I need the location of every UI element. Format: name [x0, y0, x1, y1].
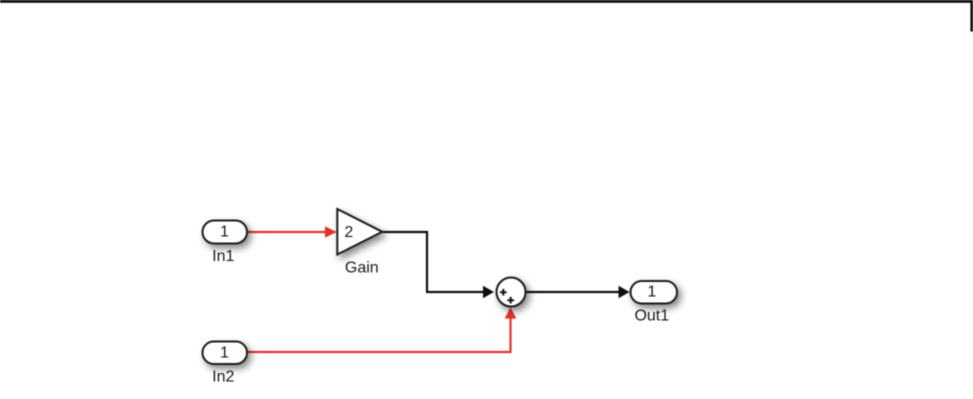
plus sign bottom input	[507, 297, 514, 304]
svg-text:In1: In1	[212, 248, 234, 265]
svg-text:1: 1	[220, 345, 229, 362]
wire red In2 to Sum bottom	[247, 317, 511, 352]
outport block Out1	[631, 281, 678, 304]
arrowhead black at Sum left input	[483, 286, 494, 298]
arrowhead red at Gain input	[325, 226, 337, 238]
arrowhead black at Out1 input	[619, 286, 630, 298]
inport block In1	[203, 221, 248, 244]
svg-text:1: 1	[647, 283, 656, 300]
plus sign left input	[500, 289, 507, 296]
svg-text:Out1: Out1	[634, 308, 669, 325]
gain block U: triangle	[337, 209, 382, 255]
wire red In1 to Gain	[247, 231, 327, 233]
inport block In2	[203, 342, 248, 365]
sum block	[497, 278, 526, 307]
svg-text:2: 2	[344, 224, 353, 241]
window right border	[970, 0, 973, 32]
wire black Gain to Sum	[381, 232, 484, 292]
arrowhead red at Sum bottom input	[505, 307, 517, 318]
wire black Sum to Out1	[527, 291, 620, 293]
svg-text:1: 1	[220, 224, 229, 241]
window top border	[0, 0, 973, 3]
svg-text:In2: In2	[212, 369, 234, 386]
svg-text:Gain: Gain	[345, 259, 379, 276]
